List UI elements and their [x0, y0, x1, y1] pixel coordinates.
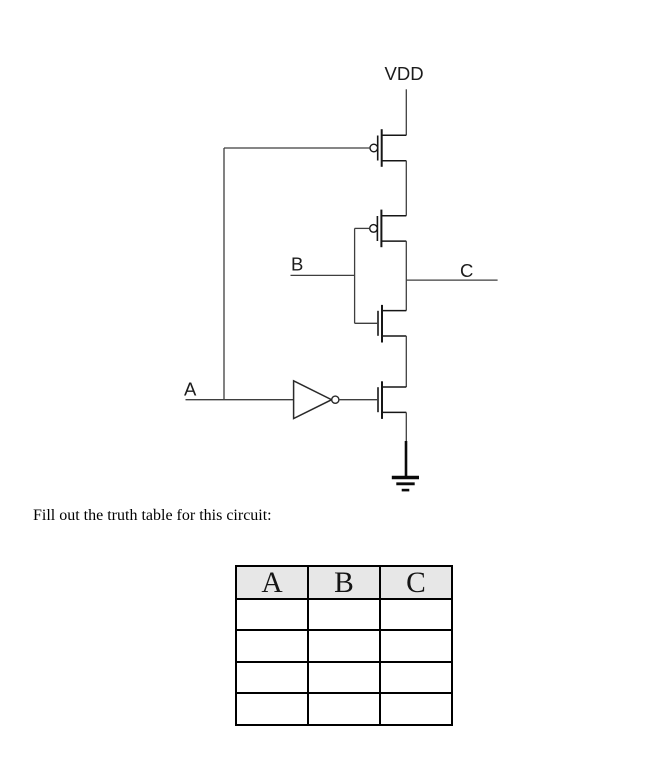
VDD label	[385, 63, 424, 84]
wire A feedback vertical	[223, 148, 225, 400]
wire B input	[291, 274, 355, 276]
transistor Q4 (NMOS bottom)	[378, 381, 406, 419]
node C label	[460, 260, 473, 281]
wire A input	[186, 399, 294, 401]
svg-text:C: C	[460, 260, 473, 281]
wire Q4 source to ground	[405, 412, 407, 476]
inverter U1	[294, 381, 339, 419]
svg-text:B: B	[291, 254, 303, 275]
wire B to Q2 gate bubble	[355, 227, 370, 229]
ground	[392, 478, 419, 491]
transistor Q2 (PMOS middle)	[370, 210, 407, 248]
transistor Q1 (PMOS top)	[370, 129, 406, 167]
wire Q2 source to Q3 drain with output tee	[405, 241, 407, 311]
wire Q3 source to Q4 drain	[405, 336, 407, 387]
truth table	[235, 565, 453, 726]
svg-text:VDD: VDD	[385, 63, 424, 84]
wire B gate bus vertical	[354, 228, 356, 323]
node B label	[291, 254, 303, 275]
wire VDD lead	[405, 89, 407, 135]
wire Q1 source to Q2 drain	[405, 161, 407, 216]
wire inverter output to Q4 gate	[339, 399, 378, 401]
node A label	[184, 379, 197, 400]
wire B to Q3 gate	[355, 322, 378, 324]
wire A feedback to Q1 gate bubble	[224, 147, 370, 149]
svg-text:A: A	[184, 379, 197, 400]
caption text	[33, 506, 272, 525]
transistor Q3 (NMOS middle)	[378, 305, 406, 343]
wire output C	[406, 279, 497, 281]
